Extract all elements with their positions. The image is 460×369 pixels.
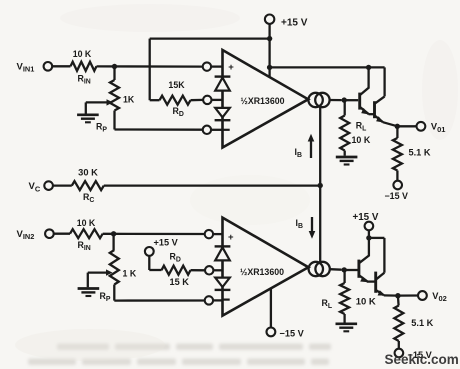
wire +15V down to op-amp V+ [268,24,270,78]
svg-text:15 K: 15 K [170,277,190,287]
wire wiper to ground (bottom) [87,273,89,288]
wire U2 output to node E [330,268,342,271]
junction +15V / collector rail [267,65,272,70]
resistor 5.1K (bottom) [397,296,400,306]
transistor Q1 (top darlington input) [358,93,361,110]
wire node B to Q1 base [344,99,358,101]
wire VIN1 to RIN [52,65,70,67]
diode D1 (U1 upper) [215,75,231,77]
op-amp U2 1/2 XR13600 (bottom) [223,218,309,316]
junction VC / bias line [318,183,323,188]
output current-source symbol U1 [308,93,322,107]
svg-text:−15 V: −15 V [280,329,305,339]
wire RIN to op-amp + input [97,65,204,67]
op-amp U1 1/2 XR13600 (top) [223,50,309,148]
ground (top RL) [336,156,358,159]
ground (top pot wiper) [77,113,99,116]
collector rail (bottom) [369,237,385,239]
resistor RL (top) 10K [344,100,346,115]
transistor Q4 (bottom darlington output) [374,272,377,293]
wire V- stub U2 [270,288,272,328]
svg-text:10 K: 10 K [352,135,371,145]
minus sign U2 [224,299,230,301]
wire pot bottom to op-amp - input (bottom) [113,285,115,301]
node B (top output) [342,97,347,102]
wire U1 output to node B [330,99,342,101]
svg-text:1 K: 1 K [123,268,137,278]
node D (bottom input junction) [111,231,116,236]
resistor RC 30K [53,184,72,186]
terminal VC [44,181,53,190]
pin diode-bias terminal U2 [205,266,213,274]
terminal +15V (bottom right) [365,222,374,231]
node G (V02 output node) [395,293,400,298]
junction Q1 collector / rail [366,65,371,70]
pin - input terminal U2 [205,296,213,304]
potentiometer RP (top) 1K [110,80,119,111]
wire bias line between amps [319,107,321,261]
diode D3 (U2 upper) [215,245,231,247]
wire RIN to op-amp + input (bottom) [103,233,205,235]
node F (bottom collector rail) [366,235,371,240]
svg-text:−15 V: −15 V [385,191,409,201]
feedback rail from +15V to RD (top) [149,39,151,101]
minus sign U1 [224,129,230,131]
wire RC to bias line [104,184,320,186]
resistor RL (bottom) 10K [343,270,345,283]
terminal V01 [417,122,426,131]
wire +15V to node F [368,230,370,238]
terminal V02 [418,291,427,300]
svg-text:½XR13600: ½XR13600 [240,96,284,106]
wiper arrow (top pot) [86,101,107,103]
wire pot bottom to op-amp - input [113,111,115,130]
resistor 5.1K (top) [396,126,398,138]
collector rail +15V (top) [270,66,385,68]
svg-text:Seekic.com: Seekic.com [385,352,459,367]
wire node G to V02 terminal [398,294,418,296]
wiper arrow (bottom pot) [88,271,107,273]
junction +15V / feedback rail [267,36,272,41]
node C (V01 output node) [395,124,400,129]
wire node C to V01 terminal [397,125,416,127]
svg-text:5.1 K: 5.1 K [411,318,433,328]
terminal VIN1 [44,62,53,71]
wire node D down to pot [112,234,114,250]
svg-text:+15 V: +15 V [281,17,308,28]
svg-text:30 K: 30 K [78,167,98,177]
svg-text:15K: 15K [168,80,185,90]
resistor RIN (top) 10K [71,62,97,71]
potentiometer RP (bottom) 1K [110,250,119,285]
svg-text:+15 V: +15 V [154,238,179,248]
terminal -15V (bottom 5.1K) [395,349,404,358]
resistor RD (bottom) 15K [148,256,150,270]
ground (bottom pot wiper) [78,287,100,290]
output current-source symbol U2 [309,262,323,276]
svg-text:½XR13600: ½XR13600 [240,267,284,277]
wire node E to Q3 base [344,269,357,271]
svg-text:10 K: 10 K [77,218,96,228]
pin diode-bias terminal U1 [203,96,211,104]
svg-text:5.1 K: 5.1 K [409,148,431,158]
terminal VIN2 [45,229,54,238]
terminal +15V (bottom RD) [145,247,154,256]
svg-text:+: + [228,62,234,73]
svg-text:10 K: 10 K [73,49,92,59]
pin + input terminal U2 [205,230,213,238]
diode D4 (U2 lower) [215,278,230,287]
pin - input terminal U1 [203,126,211,134]
terminal -15V (top 5.1K) [393,181,402,190]
node A (top input junction) [112,64,117,69]
pin + input terminal U1 [203,62,211,70]
wire node A down to pot [113,67,115,81]
node E (bottom output) [342,267,347,272]
terminal -15V (U2 supply) [267,328,276,337]
svg-text:10 K: 10 K [356,297,376,308]
transistor Q2 (top darlington output) [373,101,376,118]
resistor RIN (bottom) 10K [70,229,103,238]
svg-text:1K: 1K [123,95,135,105]
terminal +15V (top) [265,15,274,24]
svg-text:+15 V: +15 V [353,212,379,223]
wire wiper to ground (top) [85,102,87,113]
resistor RD (top) 15K [150,99,160,101]
wire VIN2 to RIN [54,233,70,235]
transistor Q3 (bottom darlington input) [357,260,360,278]
diode D2 (U1 lower) [215,108,230,117]
svg-text:+: + [228,232,234,243]
ground (bottom RL) [336,322,358,325]
